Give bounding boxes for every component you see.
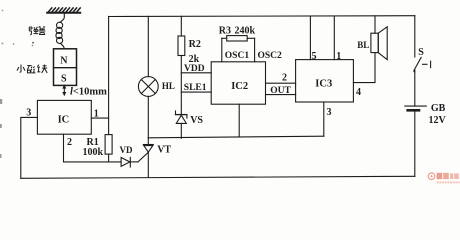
battery GB [405, 106, 427, 176]
VT gate wire [138, 152, 148, 162]
label 小磁铁 (small magnet, hand-drawn strokes) [17, 65, 47, 74]
svg-text:OSC2: OSC2 [258, 51, 283, 61]
svg-text:VD: VD [120, 145, 133, 155]
svg-text:5: 5 [312, 51, 317, 62]
resistor R2 [178, 36, 185, 56]
bus wire (gate net to IC3 pin3) [148, 136, 323, 138]
speaker BL [371, 16, 387, 60]
svg-text:BL: BL [357, 40, 369, 50]
svg-text:4: 4 [356, 87, 361, 98]
top rail [109, 15, 415, 18]
VDD / SLE1 pin cells [181, 73, 211, 92]
IC2 box [211, 62, 265, 104]
wire pin3 left [21, 117, 38, 178]
svg-text:HL: HL [162, 81, 175, 91]
R1 bottom lead [108, 154, 110, 162]
svg-text:240k: 240k [235, 25, 256, 36]
wire pin2 bottom [64, 134, 122, 162]
svg-text:2: 2 [282, 73, 287, 84]
svg-text:SLE1: SLE1 [184, 83, 207, 93]
svg-text:VS: VS [190, 115, 203, 126]
svg-text:VDD: VDD [184, 64, 205, 74]
svg-text:R2: R2 [189, 39, 201, 50]
svg-text:R3: R3 [219, 25, 231, 36]
svg-text:2: 2 [67, 137, 72, 148]
label 弹簧 (spring, hand-drawn strokes) [29, 26, 45, 43]
svg-text:3: 3 [327, 107, 332, 118]
svg-text:IC2: IC2 [231, 81, 248, 92]
svg-text:OUT: OUT [270, 86, 291, 96]
watermark (red logo bottom-right) [428, 173, 460, 184]
zener VS [176, 111, 187, 138]
IC3 pin5 [309, 16, 311, 59]
bottom rail [21, 176, 415, 178]
svg-text:IC: IC [58, 114, 70, 125]
svg-text:S: S [61, 74, 67, 85]
IC3 pin3 [323, 102, 325, 136]
IC box (reed sensor IC) [37, 100, 91, 134]
gap double arrow [62, 84, 66, 96]
IC3 box [296, 60, 354, 102]
svg-text:S: S [418, 47, 424, 58]
svg-text:100k: 100k [83, 147, 104, 158]
OUT channel to IC3 [266, 83, 296, 94]
wire R2 bottom to VS (VDD/SLE1 net) [180, 56, 182, 115]
IC3 pin4 wire [353, 53, 375, 83]
R2 drop from rail [180, 16, 182, 36]
lamp HL [138, 16, 158, 137]
switch S [414, 16, 431, 106]
svg-text:IC3: IC3 [315, 79, 332, 90]
svg-text:1: 1 [336, 51, 341, 62]
resistor R1 [105, 135, 112, 155]
svg-text:3: 3 [26, 108, 31, 119]
IC3 pin1 [333, 16, 335, 60]
vertical from top rail to R1 [108, 16, 110, 134]
svg-text:l<10mm: l<10mm [70, 87, 107, 98]
svg-text:OSC1: OSC1 [225, 51, 250, 61]
magnet (N/S box) [54, 49, 77, 86]
resistor R3 [227, 36, 248, 41]
svg-text:12V: 12V [429, 115, 447, 126]
thyristor VT [143, 138, 153, 177]
svg-text:N: N [60, 56, 68, 67]
diode VD [121, 157, 138, 167]
IC2 bottom pin to bus [238, 104, 240, 137]
ceiling anchor hatching [47, 8, 80, 13]
svg-text:1: 1 [94, 108, 99, 119]
svg-text:GB: GB [431, 103, 446, 114]
wire pin1 right to vertical [91, 117, 108, 119]
spring (coil) [56, 13, 64, 49]
scan specks left edge [0, 10, 33, 158]
svg-text:VT: VT [157, 144, 171, 155]
OSC cell structure + R3 [222, 38, 255, 62]
